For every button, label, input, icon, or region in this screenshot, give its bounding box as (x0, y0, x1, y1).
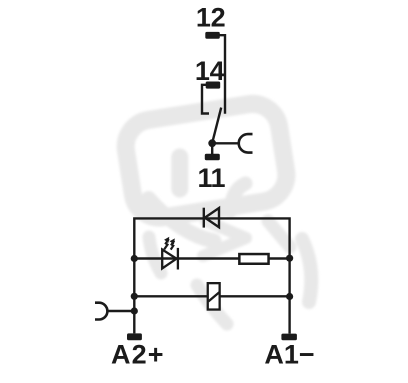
node socket junction (131, 307, 138, 314)
socket contact top (239, 134, 253, 153)
terminal A2 (127, 333, 142, 340)
resistor R1 (239, 254, 268, 264)
svg-text:A2+: A2+ (111, 339, 165, 369)
LED arrow 2 (170, 238, 175, 249)
svg-text:11: 11 (198, 163, 226, 193)
wire switch blade (212, 108, 221, 143)
wire socket to A2 line (107, 310, 134, 312)
wire 12 terminal to contact (219, 35, 225, 114)
LED (162, 248, 178, 270)
wire 14 bracket (202, 85, 209, 114)
wire row LED (134, 257, 289, 259)
socket contact left (95, 303, 107, 320)
wire pivot to socket (212, 142, 239, 144)
terminal 12 (205, 32, 220, 39)
node row3 right (286, 293, 293, 300)
node row2 right (286, 255, 293, 262)
svg-text:12: 12 (196, 3, 225, 33)
terminal 14 (206, 82, 221, 89)
svg-text:A1−: A1− (264, 339, 314, 369)
watermark logo (122, 100, 311, 324)
node pivot (208, 139, 216, 147)
wire row coil (134, 295, 289, 297)
wire pivot to 11 terminal (211, 145, 213, 154)
terminal 11 (205, 154, 220, 161)
relay coil diagonal (208, 292, 219, 301)
relay coil K1 (208, 283, 220, 309)
svg-text:14: 14 (195, 56, 225, 86)
wire box top (134, 218, 289, 333)
diode V1 (204, 208, 219, 228)
terminal A1 (281, 334, 297, 341)
node row2 left (131, 255, 138, 262)
node row3 left (131, 293, 138, 300)
LED arrow 1 (164, 237, 169, 250)
